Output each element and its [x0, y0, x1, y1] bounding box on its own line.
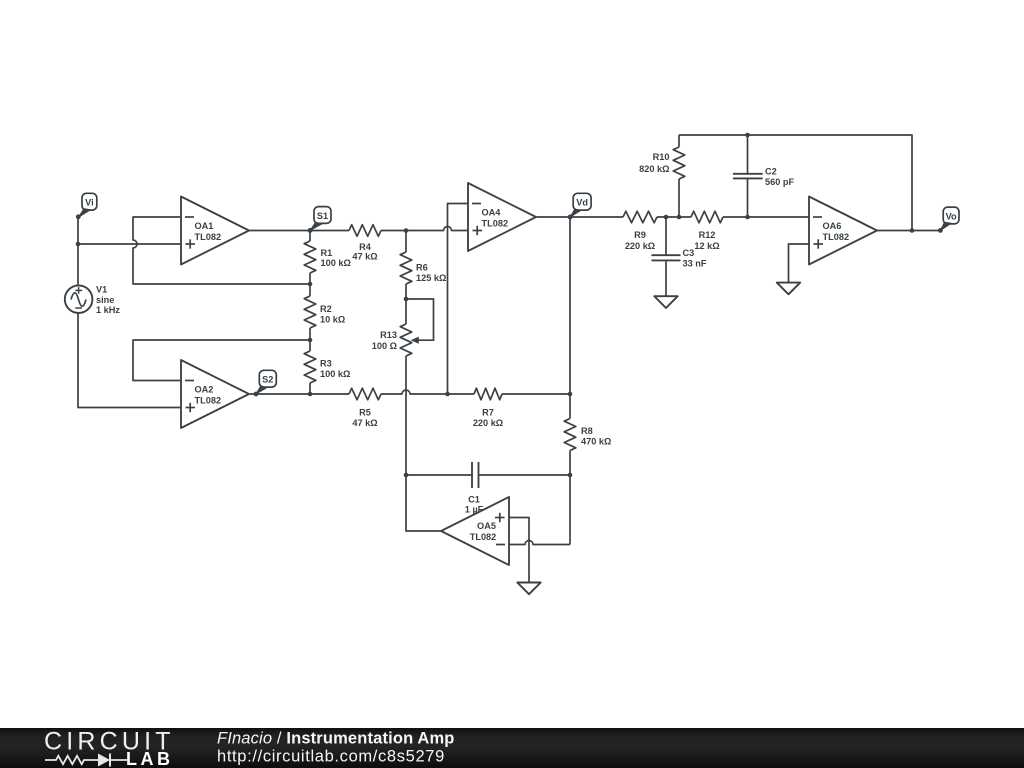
svg-text:220 kΩ: 220 kΩ	[625, 241, 655, 251]
junction C3 node	[664, 215, 669, 220]
resistor R8	[564, 394, 576, 475]
wire OA6 output	[877, 230, 941, 232]
footer bar	[0, 728, 1024, 768]
capacitor C1	[406, 462, 570, 488]
junction C2 bottom node	[745, 215, 750, 220]
wire OA2 output to S2	[249, 393, 310, 395]
wire OA4 output rail	[536, 216, 623, 218]
label C1 value	[465, 495, 484, 515]
svg-text:820 kΩ: 820 kΩ	[639, 164, 669, 174]
svg-text:FInacio / Instrumentation Amp: FInacio / Instrumentation Amp	[217, 730, 455, 748]
svg-text:sine: sine	[96, 295, 114, 305]
junction R6/R13	[404, 297, 409, 302]
node label S1	[308, 207, 331, 233]
svg-text:TL082: TL082	[195, 232, 222, 242]
resistor R5	[310, 388, 448, 400]
label R5 value	[352, 408, 377, 429]
svg-text:100 kΩ: 100 kΩ	[321, 258, 351, 268]
resistor R3	[304, 340, 316, 394]
svg-text:10 kΩ: 10 kΩ	[320, 315, 345, 325]
svg-text:LAB: LAB	[126, 749, 174, 768]
svg-text:100 kΩ: 100 kΩ	[320, 369, 350, 379]
svg-text:125 kΩ: 125 kΩ	[416, 273, 446, 283]
logo text LAB	[126, 749, 174, 768]
svg-text:R8: R8	[581, 426, 593, 436]
wire R4 to OA4 + input (hop over feedback)	[406, 227, 468, 231]
svg-text:560 pF: 560 pF	[765, 177, 794, 187]
svg-text:C3: C3	[683, 248, 695, 258]
svg-text:V1: V1	[96, 284, 107, 294]
junction OA4 feedback node	[445, 392, 450, 397]
wire OA5 + input to ground	[509, 518, 529, 583]
op-amp OA4	[468, 183, 536, 251]
svg-text:1 µF: 1 µF	[465, 505, 484, 515]
label R2 value	[320, 304, 345, 325]
svg-text:12 kΩ: 12 kΩ	[694, 241, 719, 251]
junction C2 top node	[745, 133, 750, 138]
svg-text:C1: C1	[468, 495, 480, 505]
label C2 value	[765, 167, 794, 188]
op-amp OA2	[181, 360, 249, 428]
junction S2	[308, 392, 313, 397]
resistor R1	[304, 231, 316, 285]
footer title	[217, 730, 455, 748]
svg-text:47 kΩ: 47 kΩ	[352, 418, 377, 428]
svg-text:R5: R5	[359, 408, 371, 418]
label R10 value	[639, 152, 669, 174]
svg-text:http://circuitlab.com/c8s5279: http://circuitlab.com/c8s5279	[217, 748, 445, 766]
junction C1 right node	[568, 473, 573, 478]
svg-text:220 kΩ: 220 kΩ	[473, 418, 503, 428]
svg-text:TL082: TL082	[470, 532, 497, 542]
junction Vi node	[76, 242, 81, 247]
resistor R4	[310, 225, 406, 237]
svg-text:47 kΩ: 47 kΩ	[352, 252, 377, 262]
svg-text:OA1: OA1	[195, 221, 214, 231]
svg-text:Vd: Vd	[576, 198, 588, 208]
svg-text:OA4: OA4	[482, 208, 502, 218]
svg-text:TL082: TL082	[823, 232, 850, 242]
ground below C3	[654, 296, 677, 308]
junction R7/R8	[568, 392, 573, 397]
wire OA1 output to S1	[249, 230, 310, 232]
svg-text:TL082: TL082	[482, 219, 509, 229]
ground below OA5	[517, 583, 540, 595]
wire R13 bypass	[406, 299, 434, 340]
junction S1	[308, 228, 313, 233]
wire OA6 + input to ground	[789, 244, 810, 283]
node label Vi	[76, 193, 97, 219]
junction R2/R3	[308, 338, 313, 343]
resistor R7	[448, 388, 571, 400]
svg-text:R2: R2	[320, 304, 332, 314]
svg-text:R7: R7	[482, 408, 494, 418]
wire top feedback rail	[679, 135, 912, 231]
svg-text:Vo: Vo	[946, 211, 957, 221]
node label Vo	[938, 207, 959, 233]
svg-text:33 nF: 33 nF	[683, 259, 707, 269]
wire OA5 - to C1 node	[569, 475, 571, 545]
node label S2	[254, 370, 277, 396]
resistor R12	[691, 211, 809, 223]
wire Vi vertical to V1	[77, 216, 79, 287]
label R12 value	[694, 230, 719, 251]
junction Vd node	[568, 215, 573, 220]
footer url	[217, 748, 445, 766]
resistor R9	[623, 211, 691, 223]
wire OA1 - feedback (hop over Vi wire)	[133, 217, 310, 284]
wire V1 to OA2 + input	[78, 314, 181, 408]
resistor R6	[400, 231, 412, 300]
junction R10 node	[677, 215, 682, 220]
svg-text:R3: R3	[320, 359, 332, 369]
svg-text:TL082: TL082	[195, 396, 222, 406]
wire OA5 - input (hop over ground wire)	[509, 541, 570, 545]
voltage source V1	[65, 285, 93, 313]
svg-text:R9: R9	[634, 230, 646, 240]
label R1 value	[321, 248, 351, 268]
svg-text:OA5: OA5	[477, 521, 496, 531]
label R3 value	[320, 359, 350, 380]
junction R1/R2	[308, 282, 313, 287]
label R7 value	[473, 408, 503, 429]
logo resistor-diode glyph	[45, 754, 127, 767]
wire OA5 output to R13 column	[406, 475, 441, 531]
svg-text:OA6: OA6	[823, 221, 842, 231]
svg-text:100 Ω: 100 Ω	[372, 341, 397, 351]
junction OA6 output node	[910, 228, 915, 233]
wiper arrow R13	[411, 337, 419, 344]
op-amp OA6	[809, 197, 877, 265]
wire OA2 - feedback	[133, 340, 310, 381]
label R4 value	[352, 242, 377, 262]
svg-text:C2: C2	[765, 167, 777, 177]
svg-text:R4: R4	[359, 242, 372, 252]
svg-text:470 kΩ: 470 kΩ	[581, 437, 611, 447]
svg-text:R12: R12	[699, 230, 716, 240]
svg-text:1 kHz: 1 kHz	[96, 305, 120, 315]
label R13 value	[372, 330, 397, 351]
junction R4/R6	[404, 228, 409, 233]
junction C1 left node	[404, 473, 409, 478]
capacitor C3	[652, 217, 681, 296]
svg-text:Vi: Vi	[85, 198, 94, 208]
svg-text:R10: R10	[653, 152, 670, 162]
svg-text:OA2: OA2	[195, 385, 214, 395]
label R6 value	[416, 263, 446, 284]
svg-text:R13: R13	[380, 330, 397, 340]
wire OA4 - feedback	[448, 204, 469, 395]
label C3 value	[683, 248, 707, 269]
logo text CIRCUIT	[44, 728, 175, 756]
svg-text:S1: S1	[317, 211, 328, 221]
rheostat R13	[400, 299, 412, 475]
resistor R2	[304, 284, 316, 340]
svg-text:S2: S2	[262, 375, 273, 385]
ground below OA6	[777, 283, 800, 295]
node label Vd	[568, 193, 591, 219]
op-amp OA1	[181, 197, 249, 265]
resistor R10	[673, 135, 685, 217]
label R8 value	[581, 426, 611, 447]
label V1 value	[96, 284, 120, 315]
op-amp OA5	[441, 497, 509, 565]
wire Vd vertical	[569, 217, 571, 394]
svg-text:R6: R6	[416, 263, 428, 273]
svg-text:R1: R1	[321, 248, 333, 258]
wire Vi to OA1 + input	[78, 243, 181, 245]
capacitor C2	[733, 135, 763, 217]
label R9 value	[625, 230, 655, 251]
